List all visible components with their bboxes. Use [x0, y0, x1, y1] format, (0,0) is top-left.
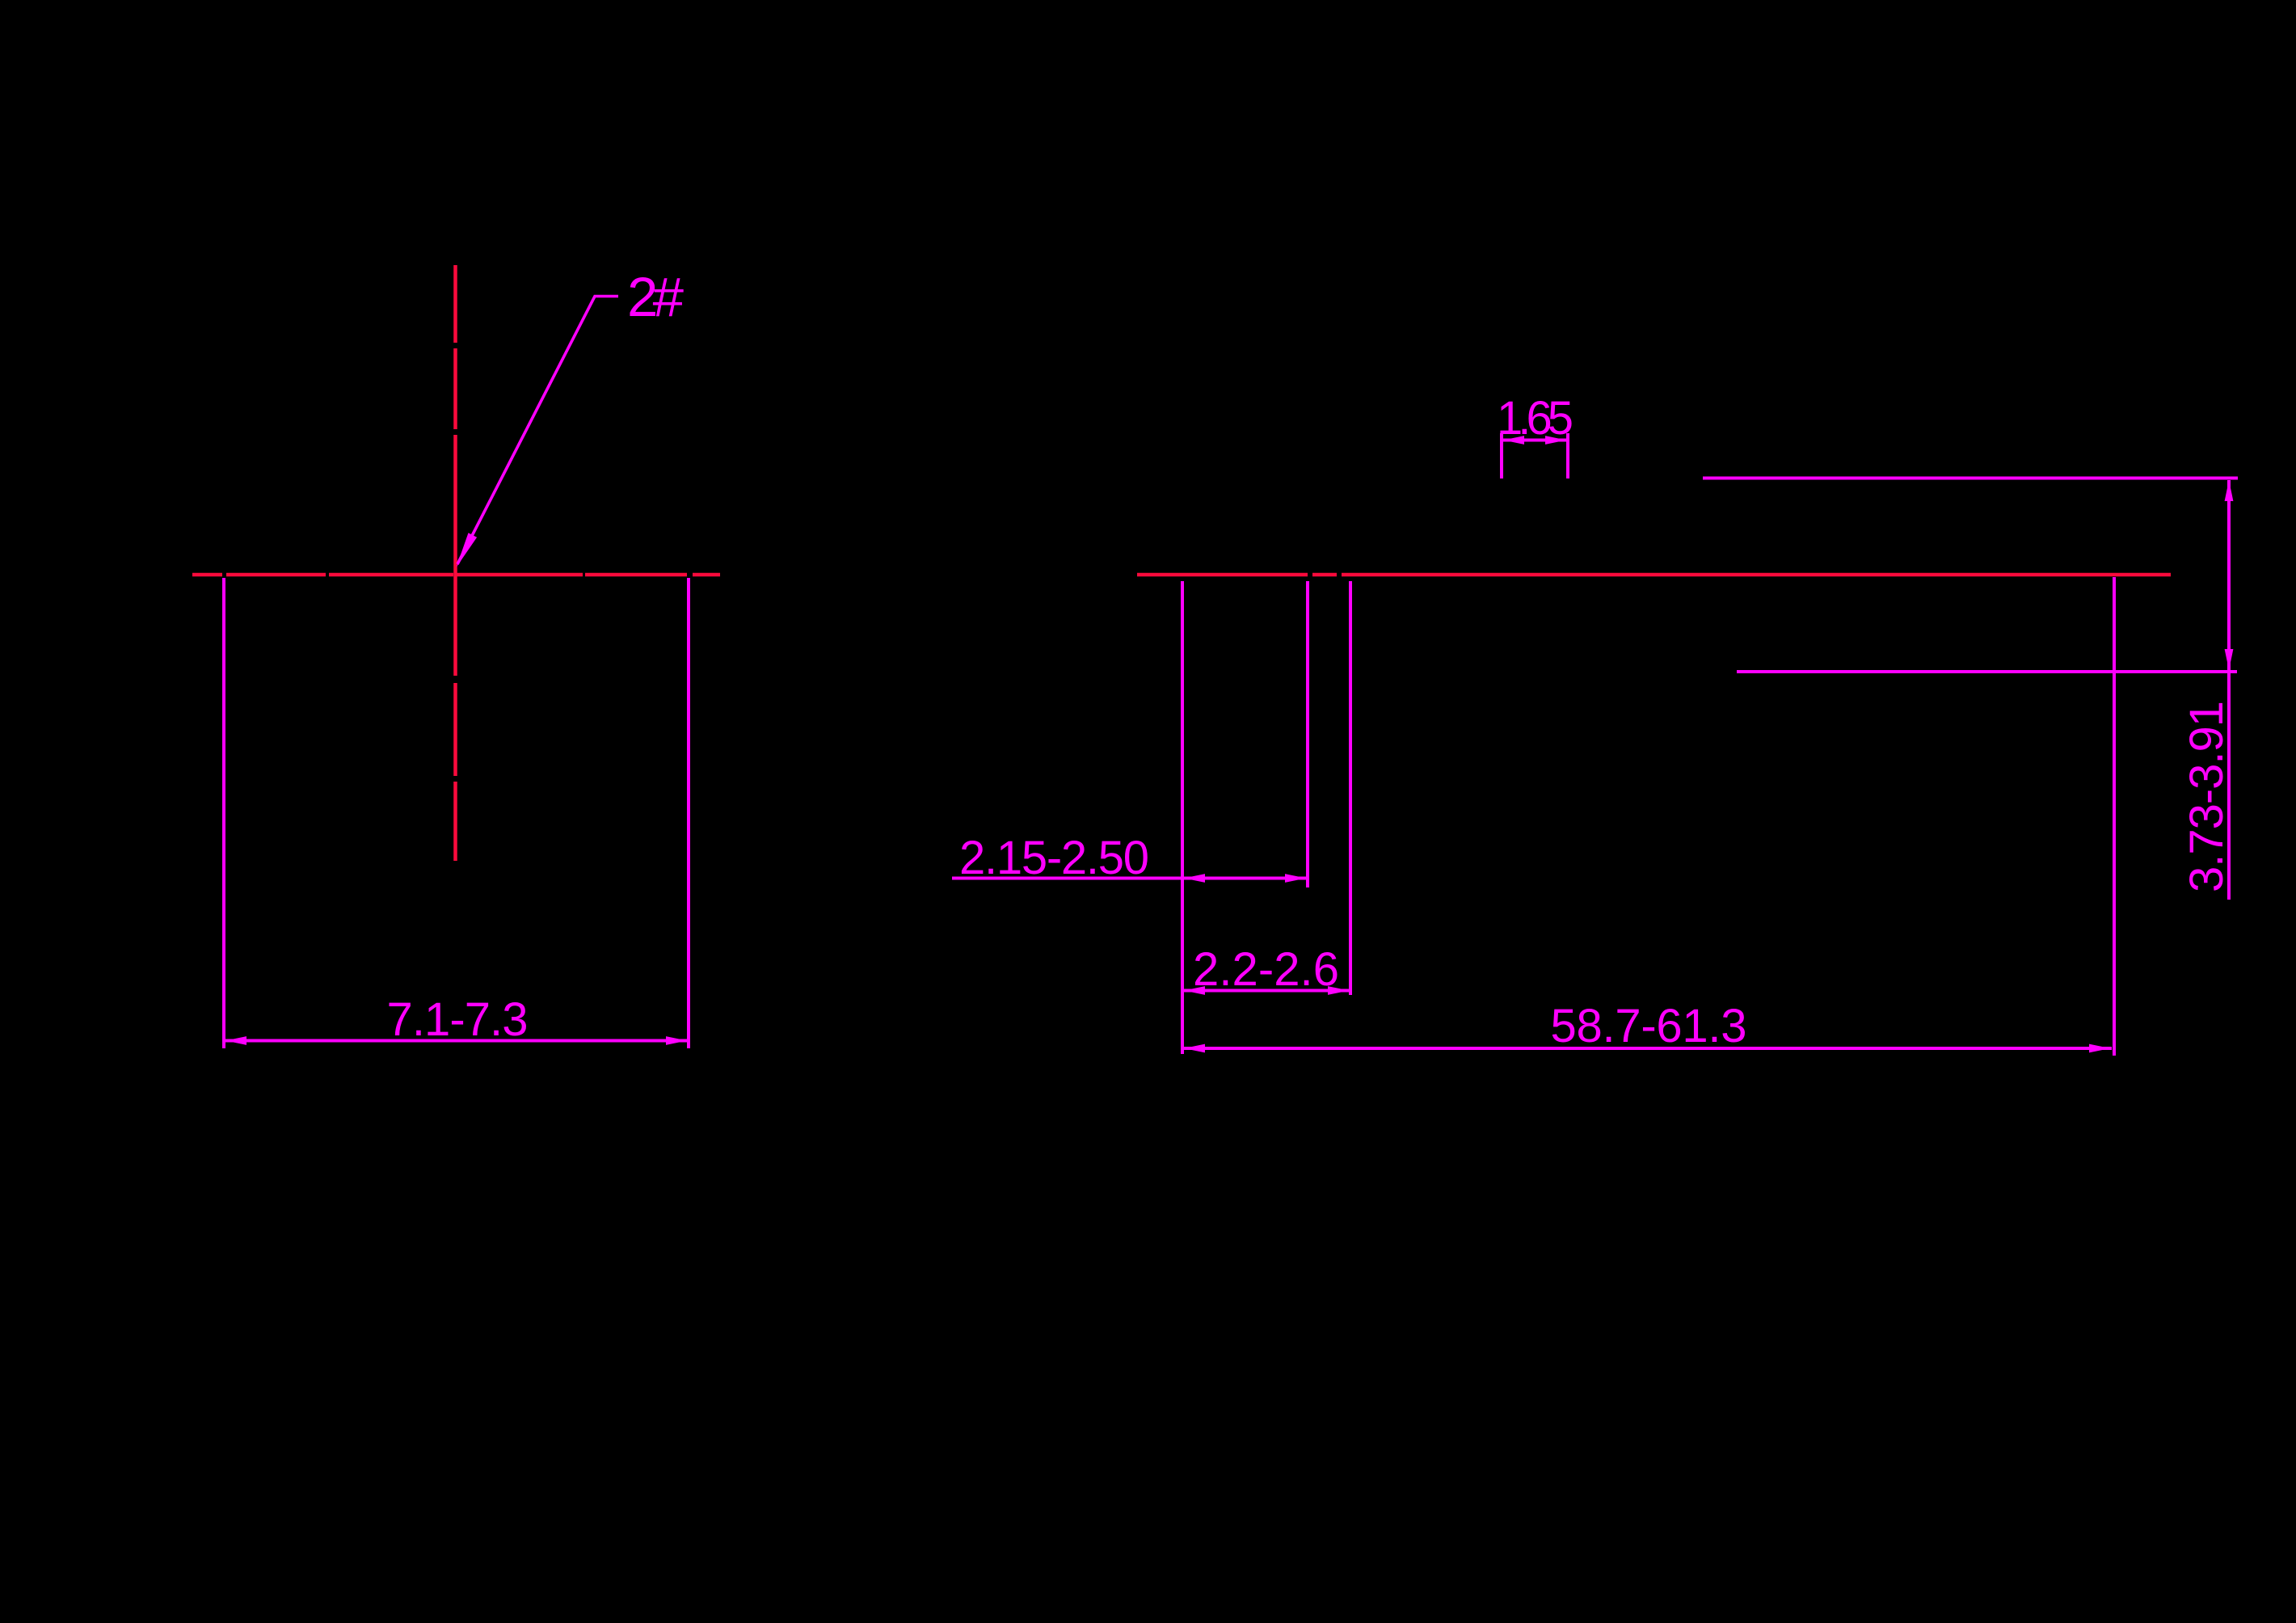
svg-text:58.7-61.3: 58.7-61.3 — [1551, 1000, 1747, 1052]
dimension line 2.15-2.50 with text underline — [952, 877, 1308, 880]
arrowhead 58.7-61.3 right — [2089, 1044, 2110, 1053]
extension line right (58.7-61.3) — [2113, 577, 2116, 1056]
lower edge line (right view) — [1737, 670, 2237, 673]
svg-text:1.65: 1.65 — [1497, 392, 1573, 445]
centerline vertical (left view) — [453, 265, 457, 861]
arrowhead 58.7-61.3 left — [1184, 1044, 1205, 1053]
svg-text:2.15-2.50: 2.15-2.50 — [959, 832, 1149, 884]
svg-text:2.2-2.6: 2.2-2.6 — [1193, 943, 1339, 996]
leader line 2# — [457, 297, 618, 565]
centerline horizontal (right view) — [1137, 573, 2171, 577]
arrowhead 1.65 right — [1545, 436, 1566, 445]
extension line left (7.1-7.3) — [222, 578, 225, 1048]
svg-text:3.73-3.91: 3.73-3.91 — [2180, 701, 2233, 892]
arrowhead 7.1-7.3 right — [666, 1036, 687, 1045]
leader arrowhead — [457, 533, 478, 567]
arrowhead 1.65 left — [1503, 436, 1524, 445]
extension line right (1.65) — [1566, 433, 1569, 478]
dimension line 1.65 — [1502, 439, 1568, 442]
vertical dimension line 3.73-3.91 — [2227, 480, 2231, 900]
arrowhead 2.2-2.6 left — [1184, 986, 1205, 995]
svg-text:7.1-7.3: 7.1-7.3 — [387, 993, 529, 1046]
dimension line 58.7-61.3 — [1182, 1047, 2112, 1050]
arrowhead 3.73-3.91 bottom — [2225, 649, 2234, 670]
svg-text:2#: 2# — [627, 266, 685, 328]
extension line right (7.1-7.3) — [687, 578, 690, 1048]
centerline horizontal (left view) — [192, 573, 720, 577]
arrowhead 2.15-2.50 right — [1285, 874, 1306, 883]
arrowhead 3.73-3.91 top — [2225, 480, 2234, 501]
arrowhead 2.2-2.6 right — [1328, 986, 1349, 995]
arrowhead 2.15-2.50 left — [1184, 874, 1205, 883]
extension line left (1.65) — [1500, 433, 1503, 478]
dimension line 2.2-2.6 — [1182, 989, 1350, 993]
extension line right (2.2-2.6) — [1349, 581, 1352, 995]
arrowhead 7.1-7.3 left — [225, 1036, 246, 1045]
extension line right (2.15-2.50) — [1306, 581, 1309, 887]
upper edge line (right view) — [1703, 477, 2238, 480]
extension line shared left (right view dims) — [1181, 581, 1184, 1054]
dimension line 7.1-7.3 — [224, 1039, 689, 1043]
